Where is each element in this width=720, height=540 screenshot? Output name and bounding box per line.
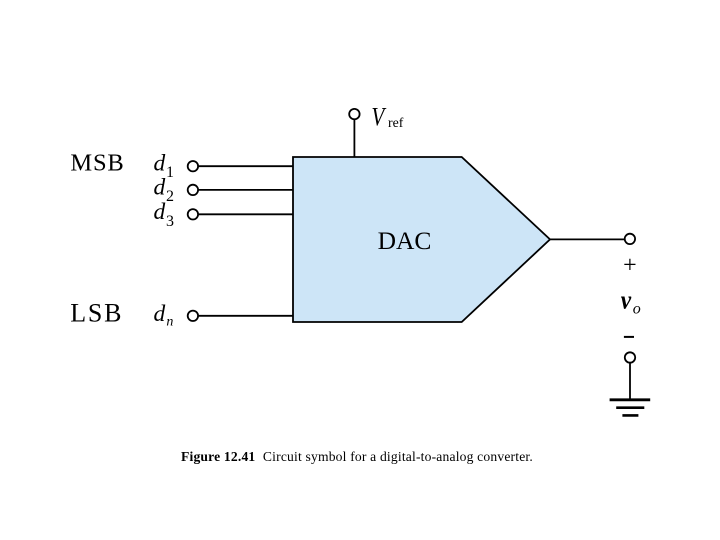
svg-text:ref: ref xyxy=(388,115,404,130)
svg-text:Figure 12.41Circuit symbol for: Figure 12.41Circuit symbol for a digital… xyxy=(181,449,533,464)
svg-text:d: d xyxy=(154,150,166,176)
svg-text:1: 1 xyxy=(166,164,174,181)
svg-text:d: d xyxy=(154,175,166,201)
svg-text:3: 3 xyxy=(166,213,174,230)
svg-text:d: d xyxy=(154,301,166,327)
svg-text:+: + xyxy=(623,253,637,279)
svg-text:o: o xyxy=(633,300,641,317)
svg-text:v: v xyxy=(621,287,632,315)
svg-text:MSB: MSB xyxy=(70,150,124,177)
svg-text:2: 2 xyxy=(166,188,174,205)
svg-text:d: d xyxy=(154,199,166,225)
svg-text:DAC: DAC xyxy=(378,226,432,255)
svg-text:V: V xyxy=(371,103,386,132)
svg-text:n: n xyxy=(166,314,173,329)
svg-text:LSB: LSB xyxy=(70,299,123,328)
